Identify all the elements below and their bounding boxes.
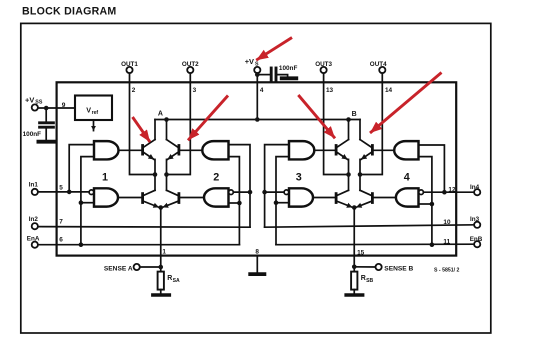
wire In1 row to gate1b bubble <box>38 191 89 193</box>
svg-text:BLOCK DIAGRAM: BLOCK DIAGRAM <box>22 6 116 18</box>
junction EnA/gate1 riser <box>79 242 84 247</box>
transistor Q3 (lower left) <box>143 190 159 207</box>
svg-text:8: 8 <box>255 249 259 256</box>
wire +Vs internal rail <box>155 119 360 121</box>
wire gate4b lower input <box>419 203 432 205</box>
junction OUT1 node <box>153 172 158 177</box>
svg-text:9: 9 <box>62 102 66 109</box>
svg-text:6: 6 <box>59 236 63 243</box>
junction OUT3 node <box>346 172 351 177</box>
svg-text:5: 5 <box>59 185 63 192</box>
pin In2 <box>29 216 39 229</box>
junction In4 riser <box>442 190 447 195</box>
svg-text:3: 3 <box>193 87 197 94</box>
AND gate 4a <box>394 141 418 159</box>
ground RSA <box>153 290 169 295</box>
wire EnB riser gate3 <box>276 157 289 245</box>
AND gate 1b <box>94 188 118 206</box>
wire sense A <box>140 266 161 268</box>
pin SENSE B <box>376 264 414 272</box>
svg-text:7: 7 <box>59 219 63 226</box>
pin OUT3 <box>315 61 332 73</box>
svg-text:4: 4 <box>404 172 410 184</box>
junction EnA riser/gate1b lower input <box>79 200 84 205</box>
wire gate1b lower input <box>81 202 94 204</box>
pin OUT2 <box>182 61 199 73</box>
svg-text:SA: SA <box>173 278 180 284</box>
svg-text:1: 1 <box>102 172 108 184</box>
wire pin 9 from +Vss to Vref <box>38 107 75 109</box>
svg-text:SENSE A: SENSE A <box>104 265 133 272</box>
junction +Vss/cap <box>44 106 49 111</box>
wire In3 riser to gate3a upper input <box>265 145 289 228</box>
svg-text:2: 2 <box>213 172 219 184</box>
junction bridge B sense node <box>352 205 357 210</box>
junction rail/bridgeB left leg <box>346 117 351 122</box>
red annotation arrow 3 (Q2) <box>188 96 228 141</box>
wire gate3b output to Q7 base <box>313 197 335 199</box>
svg-text:100nF: 100nF <box>279 65 298 72</box>
wire gate3b bubble to In3 riser <box>265 191 284 193</box>
wire gate1a output to Q1 base <box>119 149 142 151</box>
svg-text:14: 14 <box>385 87 393 94</box>
bridge B right leg <box>359 120 361 140</box>
wire bridge B left trunk <box>348 159 350 190</box>
svg-text:13: 13 <box>326 87 334 94</box>
svg-text:100nF: 100nF <box>23 131 42 138</box>
junction EnB riser/gate4b lower input <box>430 202 435 207</box>
arrow below Vref <box>93 120 95 130</box>
svg-text:1: 1 <box>162 249 166 256</box>
wire gate2b bubble to In2 riser <box>233 191 250 193</box>
wire sense B <box>354 266 375 268</box>
pin In3 <box>470 216 480 228</box>
bridge A left leg <box>154 120 156 140</box>
pin In1 <box>29 181 39 195</box>
wire OUT4 stem <box>360 73 382 174</box>
wire pin 15 sense B stem <box>353 208 355 273</box>
resistor RSB <box>351 272 373 290</box>
inverter bubble gate 1b <box>89 190 94 195</box>
pin In4 <box>470 184 480 195</box>
svg-text:SENSE B: SENSE B <box>384 265 413 272</box>
pin EnB <box>470 236 483 247</box>
Vref block <box>75 96 112 121</box>
AND gate 1a <box>94 141 119 159</box>
AND gate 2b <box>204 188 228 206</box>
bridge A right leg <box>166 120 168 140</box>
wire bridge A left trunk <box>154 159 156 190</box>
junction bridge A sense node <box>158 205 163 210</box>
wire gate2b output to Q4 base <box>180 197 204 199</box>
pin OUT4 <box>370 61 387 73</box>
wire pin 1 sense A stem <box>160 208 162 273</box>
pin SENSE A <box>104 264 140 272</box>
junction In1 riser <box>67 190 72 195</box>
svg-text:In1: In1 <box>29 181 39 188</box>
wire OUT3 stem <box>324 73 349 174</box>
svg-text:V: V <box>86 106 91 115</box>
wire In4 row <box>423 191 474 193</box>
svg-text:+V: +V <box>25 95 34 104</box>
wire OUT1 stem <box>130 73 156 174</box>
node +Vss <box>25 95 43 110</box>
wire bridge B right trunk <box>359 159 361 190</box>
svg-text:R: R <box>361 275 366 282</box>
svg-text:2: 2 <box>132 87 136 94</box>
inverter bubble gate 4b <box>419 190 424 195</box>
svg-text:15: 15 <box>357 249 365 256</box>
inverter bubble gate 2b <box>229 190 234 195</box>
svg-text:S - 5851/ 2: S - 5851/ 2 <box>434 267 459 273</box>
wire gate3b lower input <box>276 202 289 204</box>
red annotation arrow 1 (+Vs) <box>256 38 292 61</box>
transistor Q4 (lower right) <box>163 190 179 207</box>
pin +Vs <box>245 57 261 73</box>
wire gate4b output to Q8 base <box>374 197 396 199</box>
wire EnB row <box>276 243 474 246</box>
wire gate3a output to Q5 base <box>314 149 335 151</box>
junction +Vs/cap <box>255 72 260 77</box>
svg-text:A: A <box>158 111 163 118</box>
bridge B left leg <box>348 120 350 140</box>
junction In3/gate3b bubble wire <box>262 190 267 195</box>
wire EnB riser gate4 <box>419 157 432 245</box>
junction OUT2 node <box>164 172 169 177</box>
red annotation arrow 4 (Q5) <box>298 95 335 138</box>
AND gate 3b <box>289 188 313 206</box>
junction sense A node <box>158 265 163 270</box>
svg-text:SB: SB <box>366 278 373 284</box>
wire EnA row <box>38 244 240 246</box>
wire In2 row <box>38 226 250 229</box>
junction EnB riser/gate3b lower input <box>274 200 279 205</box>
junction sense B node <box>352 265 357 270</box>
junction rail/bridgeA right leg <box>164 117 169 122</box>
svg-text:3: 3 <box>296 172 302 184</box>
junction EnA riser/gate2b lower input <box>237 201 242 206</box>
transistor Q2 (upper right) <box>167 140 179 160</box>
capacitor 100nF (top) <box>259 65 297 81</box>
svg-text:4: 4 <box>260 87 264 94</box>
IC body outline <box>57 82 457 255</box>
pin OUT1 <box>121 61 138 73</box>
wire In3 row <box>265 225 475 227</box>
wire gate1b output to Q3 base <box>118 197 141 199</box>
wire gate4a output to Q6 base <box>374 149 395 151</box>
wire In2 riser to gate2a upper input <box>229 145 251 228</box>
inverter bubble gate 3b <box>284 190 289 195</box>
red annotation arrow 2 (Q1) <box>133 117 151 142</box>
transistor Q6 (upper right) <box>360 140 372 160</box>
wire EnA riser gate1 <box>81 157 94 245</box>
pin 8 ground <box>250 249 264 275</box>
transistor Q8 (lower right) <box>356 190 372 207</box>
junction EnB/gate4 riser <box>430 242 435 247</box>
transistor Q7 (lower left) <box>336 190 352 207</box>
ground RSB <box>346 290 362 295</box>
pin EnA <box>27 235 40 247</box>
wire gate2b lower input <box>229 202 240 204</box>
junction OUT4 node <box>358 172 363 177</box>
AND gate 2a <box>202 141 228 159</box>
transistor Q1 (upper left) <box>143 140 155 160</box>
svg-text:R: R <box>167 275 172 282</box>
border frame <box>21 23 491 333</box>
wire +Vs stem to rail <box>256 73 258 119</box>
wire OUT2 stem <box>167 73 191 174</box>
svg-text:In2: In2 <box>29 216 39 223</box>
wire gate2a output to Q2 base <box>180 149 202 151</box>
red annotation arrow 5 (Q6) <box>370 73 442 134</box>
wire In1 riser to gate1a upper input <box>69 145 94 192</box>
wire bridge A right trunk <box>166 159 168 190</box>
transistor Q5 (upper left) <box>336 140 348 160</box>
svg-text:ref: ref <box>92 110 99 116</box>
svg-text:+V: +V <box>245 57 254 66</box>
capacitor 100nF (left) <box>23 108 55 142</box>
AND gate 4b <box>396 188 419 206</box>
resistor RSA <box>158 272 180 290</box>
AND gate 3a <box>289 141 314 159</box>
junction In2/gate2b bubble wire <box>248 190 253 195</box>
wire In4 riser to gate4a upper input <box>419 145 445 192</box>
junction rail/pin4 <box>255 117 260 122</box>
wire EnA riser gate2 <box>229 157 240 245</box>
svg-text:B: B <box>352 111 357 118</box>
